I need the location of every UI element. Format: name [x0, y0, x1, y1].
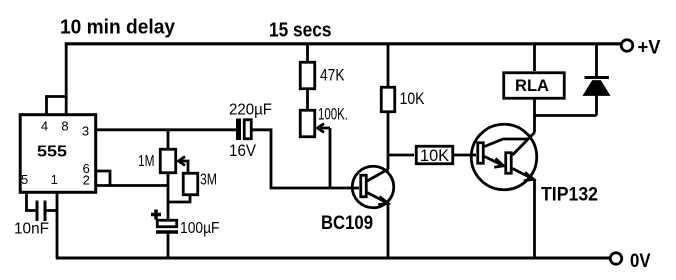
- wire pin-4 jog to pin-8 drop: [47, 97, 67, 116]
- relay RLA coil box: [504, 73, 565, 99]
- terminal +V circle: [621, 40, 633, 52]
- op-amp U1 555 timer IC body: [20, 115, 96, 193]
- wire 220uF output down to base line: [252, 130, 359, 188]
- svg-text:8: 8: [61, 119, 68, 134]
- svg-text:555: 555: [37, 144, 67, 161]
- transistor Q1 base bar: [361, 175, 367, 197]
- capacitor C2 100uF bottom plate: [156, 230, 178, 234]
- wire bottom 0V rail: [56, 256, 610, 259]
- svg-text:100µF: 100µF: [180, 220, 220, 237]
- capacitor C3 220uF left plate: [236, 119, 241, 141]
- wire pin 6 stub: [97, 171, 111, 186]
- wire 10K box to TIP132 base: [454, 154, 476, 157]
- svg-text:TIP132: TIP132: [541, 185, 598, 206]
- wire pin 5 stub: [27, 193, 36, 211]
- svg-text:10K: 10K: [420, 147, 449, 165]
- wire collector node to diode bottom: [535, 114, 597, 117]
- transistor Q2 base bar 1: [478, 143, 484, 164]
- wire drop rail to 10K: [387, 44, 390, 86]
- capacitor C3 220uF right plate (hollow): [244, 120, 251, 139]
- wire pin 2 stub to 1M bottom node: [97, 184, 169, 187]
- diode D1 cathode bar: [585, 76, 610, 79]
- transistor Q2 collector stroke from bar2: [513, 133, 535, 156]
- resistor R3 10K base resistor box: [416, 146, 453, 164]
- wire collector node to 10K box: [388, 154, 414, 157]
- wiper arrow of 100K: [318, 127, 330, 130]
- svg-text:100K.: 100K.: [318, 106, 348, 124]
- transistor Q1 emitter arrow: [378, 197, 388, 205]
- wire TIP132 emitter to bottom rail: [533, 180, 536, 259]
- wire 100K wiper down to base line: [329, 128, 332, 188]
- resistor R1 47K body: [300, 62, 315, 89]
- svg-text:4: 4: [41, 119, 48, 134]
- svg-text:3: 3: [82, 124, 89, 139]
- wire diode anode down to node: [595, 94, 598, 116]
- wiper arrow of 1M: [179, 157, 186, 166]
- wire 10nF to pin 1: [47, 209, 58, 212]
- wire pin 1 down to bottom rail: [56, 193, 59, 258]
- svg-text:BC109: BC109: [321, 213, 373, 234]
- wire 3M bottom to main vertical: [168, 196, 190, 202]
- terminal 0V circle: [610, 253, 622, 265]
- wire drop from pin3 wire to 1M top: [167, 130, 170, 148]
- wire BC109 emitter to bottom rail: [387, 204, 390, 259]
- wire top supply rail: [65, 42, 621, 45]
- svg-text:5: 5: [21, 172, 28, 187]
- resistor R2 10K body: [381, 87, 395, 112]
- wire pin 3 output to 220uF: [97, 128, 237, 131]
- svg-text:10nF: 10nF: [14, 221, 49, 238]
- transistor Q2 collector stroke from bar1: [485, 139, 529, 147]
- diode D1 anode triangle: [585, 82, 608, 95]
- wire left drop from rail to 555 pin 8: [65, 44, 68, 114]
- resistor VR3 100K preset body: [300, 110, 315, 137]
- capacitor C1 10nF plates: [36, 201, 39, 222]
- transistor Q2 TIP132 circle: [471, 124, 537, 190]
- svg-text:15 secs: 15 secs: [269, 20, 332, 42]
- wire 1M bottom down to 100uF: [167, 174, 170, 220]
- svg-text:+V: +V: [638, 37, 661, 59]
- transistor Q2 base bar 2: [506, 153, 512, 174]
- svg-text:10K: 10K: [400, 90, 425, 108]
- wire 10K down to BC109 collector: [387, 112, 390, 169]
- svg-text:2: 2: [83, 173, 90, 188]
- svg-text:3M: 3M: [200, 172, 217, 189]
- wire drop rail to 47K: [306, 44, 309, 61]
- transistor Q1 BC109 circle: [352, 166, 394, 208]
- wire 47K to 100K: [306, 89, 309, 109]
- transistor Q1 emitter stroke: [367, 193, 389, 204]
- transistor Q1 collector stroke: [367, 169, 389, 181]
- svg-text:47K: 47K: [320, 67, 345, 85]
- svg-text:1M: 1M: [138, 153, 155, 170]
- svg-text:16V: 16V: [229, 142, 256, 160]
- wire rail drop to relay: [533, 44, 536, 71]
- transistor Q2 emitter stroke from bar2: [513, 169, 535, 180]
- svg-text:10 min delay: 10 min delay: [60, 17, 176, 39]
- plus polarity mark of C2: [151, 210, 161, 220]
- svg-text:RLA: RLA: [515, 76, 549, 95]
- wire rail drop to diode cathode: [595, 44, 598, 77]
- svg-text:0V: 0V: [630, 250, 651, 272]
- resistor VR2 3M preset body: [183, 173, 198, 195]
- resistor VR1 1M preset body: [160, 149, 176, 173]
- capacitor C2 100uF top plate: [157, 220, 177, 227]
- transistor Q2 emitter stroke bar1 to bar2: [485, 157, 505, 167]
- transistor Q2 emitter arrow: [524, 173, 534, 181]
- wire 1M wiper link to 3M top: [179, 161, 189, 172]
- transistor Q2 internal arrow 1: [494, 159, 503, 168]
- svg-text:220µF: 220µF: [229, 102, 272, 119]
- wire 100uF to bottom rail: [167, 234, 170, 259]
- svg-text:1: 1: [51, 172, 58, 187]
- wire TIP132 collector up to relay node: [533, 116, 536, 133]
- wire relay bottom to collector node: [533, 100, 536, 116]
